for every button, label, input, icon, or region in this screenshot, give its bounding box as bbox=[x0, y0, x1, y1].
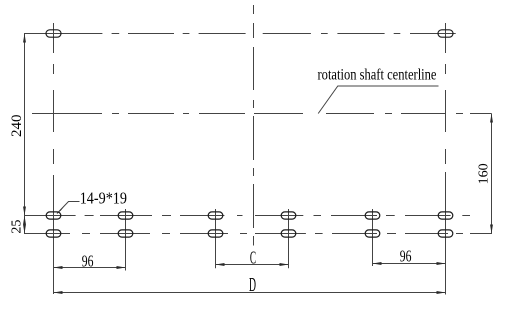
svg-text:rotation shaft centerline: rotation shaft centerline bbox=[318, 67, 437, 84]
svg-text:240: 240 bbox=[9, 115, 25, 138]
svg-text:160: 160 bbox=[477, 163, 492, 184]
svg-text:96: 96 bbox=[82, 252, 94, 271]
svg-text:96: 96 bbox=[400, 246, 412, 265]
svg-text:C: C bbox=[250, 248, 256, 268]
svg-text:14-9*19: 14-9*19 bbox=[80, 189, 127, 208]
svg-text:25: 25 bbox=[9, 220, 24, 234]
svg-text:D: D bbox=[249, 275, 256, 296]
